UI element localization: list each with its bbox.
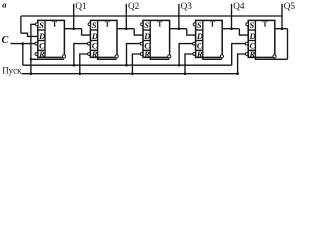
svg-text:T: T (105, 20, 110, 29)
svg-text:S: S (92, 20, 97, 30)
svg-text:R: R (91, 49, 98, 59)
node R4/Пуск junction (184, 72, 187, 75)
svg-text:R: R (143, 49, 150, 59)
node S1/Пуск junction (30, 72, 33, 75)
wire U4 bottom pin stub (203, 57, 222, 59)
U5 R pin bubble (245, 53, 248, 56)
node Q5 junction (281, 27, 284, 30)
wire Q4 to D input of U5 (239, 29, 248, 35)
U3 R pin bubble (140, 53, 143, 56)
clock bus wire (23, 64, 232, 66)
wire Q4 output (222, 28, 239, 30)
D flip-flop U1 box (38, 20, 65, 57)
node R2/Пуск junction (79, 72, 82, 75)
U4 inverse output bubble (220, 55, 223, 58)
svg-text:R: R (249, 49, 256, 59)
wire R of U4 to Пуск bus (185, 54, 193, 74)
node Q4 junction (230, 27, 233, 30)
svg-text:Q4: Q4 (233, 1, 245, 11)
wire Q2 riser (125, 4, 127, 29)
U3 S pin bubble (141, 23, 144, 26)
wire feedback to D input of U1 (21, 33, 38, 36)
U4 S pin bubble (193, 23, 196, 26)
svg-text:Q2: Q2 (128, 1, 140, 11)
D flip-flop U2 box (90, 20, 117, 57)
U5 C pin bubble (245, 42, 248, 45)
wire S input of U1 to Пуск bus (31, 24, 36, 73)
wire R of U2 to Пуск bus (80, 54, 88, 74)
wire Q1 output (64, 28, 81, 30)
U2 C pin bubble (88, 42, 91, 45)
svg-text:T: T (157, 20, 162, 29)
node clock bus junction 1 (73, 64, 76, 67)
U3 inverse output bubble (168, 55, 171, 58)
wire Q3 to D input of U4 (187, 29, 196, 35)
wire Q2 output (117, 28, 134, 30)
wire U5 bottom pin to feedback (255, 57, 287, 59)
U1 S pin bubble (35, 23, 38, 26)
wire C input (11, 43, 35, 45)
node Q2 junction (125, 27, 128, 30)
U3 C pin bubble (140, 42, 143, 45)
wire Q4 riser (231, 4, 233, 29)
wire Q2 to D input of U3 (134, 29, 143, 35)
top feedback line (Q5 net) (21, 15, 282, 17)
wire clock bus riser to C of U5 (232, 44, 246, 66)
svg-text:R: R (38, 49, 45, 59)
U5 S pin bubble (246, 23, 249, 26)
U1 C pin bubble (35, 42, 38, 45)
svg-text:a: a (2, 0, 7, 10)
U2 S pin bubble (88, 23, 91, 26)
svg-text:S: S (250, 20, 255, 30)
svg-text:Q5: Q5 (284, 1, 296, 11)
svg-text:T: T (210, 20, 215, 29)
node C branch junction (22, 42, 25, 45)
wire Q5 output (275, 28, 288, 30)
wire Q3 output (170, 28, 187, 30)
node clock bus junction 2 (125, 64, 128, 67)
wire Q3 riser (178, 4, 180, 29)
svg-text:Q1: Q1 (75, 1, 87, 11)
U1 R pin bubble (35, 53, 38, 56)
node R3/Пуск junction (131, 72, 134, 75)
svg-text:Q3: Q3 (181, 1, 193, 11)
node Q1 junction (72, 27, 75, 30)
wire clock bus riser to C of U3 (127, 44, 141, 66)
D flip-flop U3 box (143, 20, 170, 57)
svg-text:T: T (52, 20, 57, 29)
U4 R pin bubble (193, 53, 196, 56)
wire R of U3 to Пуск bus (132, 54, 140, 74)
svg-text:C: C (2, 35, 9, 46)
D flip-flop U4 box (196, 20, 223, 57)
node clock bus junction 3 (178, 64, 181, 67)
wire Пуск branch to U1 bottom pin (31, 58, 64, 60)
svg-text:S: S (39, 20, 44, 30)
svg-text:S: S (144, 20, 149, 30)
svg-text:T: T (263, 20, 268, 29)
svg-text:R: R (196, 49, 203, 59)
wire U2 bottom pin stub (98, 57, 117, 59)
wire C branch down to clock bus (22, 44, 24, 66)
wire clock bus riser to C of U2 (74, 44, 88, 66)
svg-text:Пуск: Пуск (2, 65, 22, 75)
wire Q1 to D input of U2 (82, 29, 91, 35)
Пуск bus wire (22, 73, 238, 75)
U5 inverse output bubble (273, 55, 276, 58)
node Пуск/bottom-pin junction (30, 58, 32, 60)
wire Q1 riser (73, 4, 75, 29)
svg-text:S: S (197, 20, 202, 30)
wire U3 bottom pin stub (150, 57, 169, 59)
U2 inverse output bubble (115, 55, 118, 58)
D flip-flop U5 box (248, 20, 275, 57)
feedback left edge wire (20, 16, 22, 33)
wire Q5 riser (281, 4, 283, 29)
wire clock bus riser to C of U4 (179, 44, 193, 66)
U2 R pin bubble (88, 53, 91, 56)
node Q3 junction (178, 27, 181, 30)
U1 inverse output bubble (63, 55, 66, 58)
feedback right edge wire (287, 29, 289, 60)
wire R of U5 to Пуск bus (238, 54, 246, 74)
node R5/Пуск junction (236, 72, 239, 75)
U4 C pin bubble (193, 42, 196, 45)
